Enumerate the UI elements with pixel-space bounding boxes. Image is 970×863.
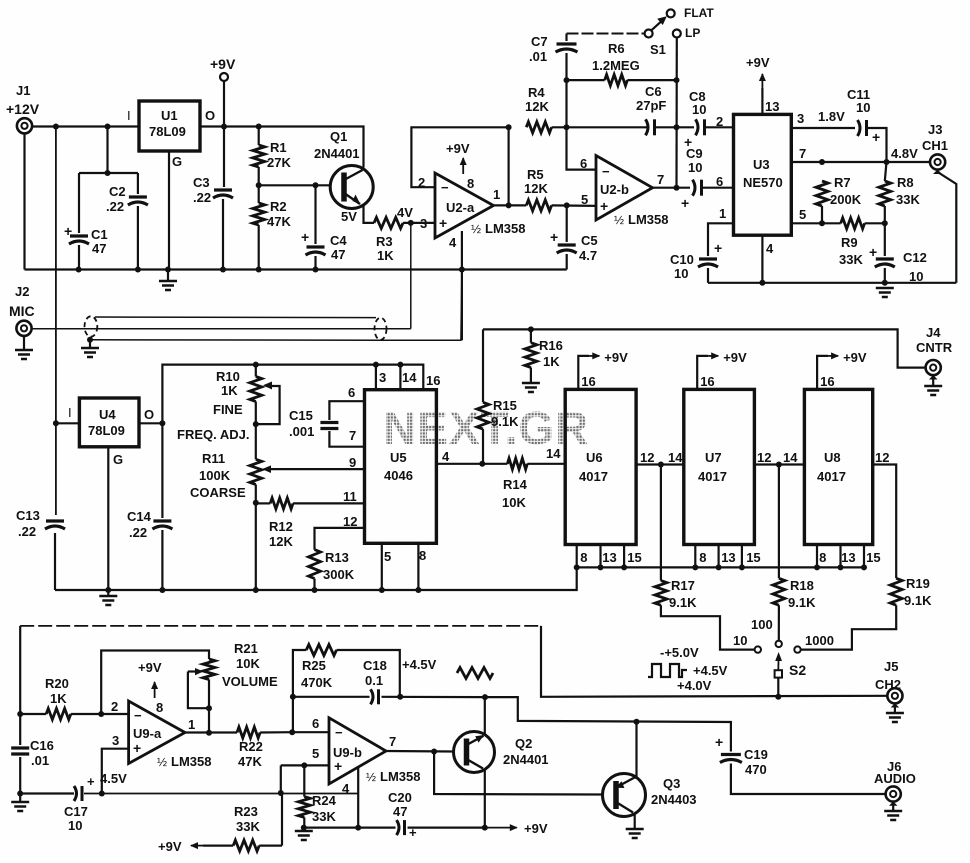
svg-text:½: ½	[366, 770, 376, 784]
svg-text:27K: 27K	[267, 155, 291, 170]
svg-text:R5: R5	[527, 167, 544, 182]
capacitor C4	[301, 185, 347, 269]
potentiometer R10 1K FINE	[213, 365, 280, 428]
svg-text:+: +	[872, 129, 880, 145]
svg-text:7: 7	[389, 734, 396, 749]
ic U6 4017	[565, 389, 636, 544]
svg-text:J4: J4	[926, 325, 941, 340]
svg-text:.22: .22	[18, 524, 36, 539]
svg-text:.01: .01	[31, 753, 49, 768]
svg-text:.22: .22	[106, 199, 124, 214]
capacitor C6 27pF	[636, 84, 694, 135]
svg-text:FREQ. ADJ.: FREQ. ADJ.	[177, 427, 249, 442]
wire U9-a output	[185, 731, 237, 733]
svg-text:C4: C4	[330, 233, 347, 248]
wire Q2 node step	[485, 697, 731, 751]
wire J6 sleeve	[889, 801, 898, 811]
wire U3 pin4	[761, 235, 763, 283]
wire +9V osc rail	[162, 362, 423, 424]
svg-text:R10: R10	[216, 369, 240, 384]
svg-text:.22: .22	[193, 190, 211, 205]
resistor R8 33K	[879, 162, 921, 223]
wire J4 sleeve	[929, 375, 938, 386]
capacitor C17 10	[64, 786, 88, 833]
wire U9-b pin5	[281, 762, 329, 768]
svg-text:10: 10	[856, 100, 870, 115]
svg-text:+: +	[409, 825, 417, 840]
svg-text:47: 47	[92, 241, 106, 256]
svg-text:U7: U7	[705, 450, 722, 465]
svg-text:4.7: 4.7	[579, 248, 597, 263]
svg-text:CNTR: CNTR	[916, 340, 953, 355]
svg-text:4: 4	[449, 235, 457, 250]
svg-text:U4: U4	[99, 407, 116, 422]
junction dots ground rail	[76, 267, 465, 273]
svg-text:+: +	[133, 740, 141, 756]
wire U9-b pin6 node	[290, 694, 329, 732]
svg-text:4.8V: 4.8V	[891, 146, 918, 161]
svg-text:1.8V: 1.8V	[818, 109, 845, 124]
jack J6 AUDIO	[874, 759, 916, 802]
svg-text:8: 8	[419, 548, 426, 563]
svg-text:R18: R18	[790, 578, 814, 593]
svg-text:+: +	[714, 240, 722, 256]
svg-text:10K: 10K	[236, 656, 260, 671]
svg-text:LM358: LM358	[171, 754, 211, 769]
svg-text:2N4401: 2N4401	[314, 146, 360, 161]
svg-text:J3: J3	[928, 122, 942, 137]
capacitor C16 .01	[11, 738, 54, 768]
svg-text:J2: J2	[15, 284, 29, 299]
svg-text:12: 12	[640, 450, 654, 465]
svg-text:O: O	[205, 108, 215, 123]
svg-text:6: 6	[716, 174, 723, 189]
resistor R25 470K	[293, 645, 400, 697]
label U6 pin12	[640, 450, 654, 465]
node watermark	[383, 402, 589, 454]
svg-text:R4: R4	[528, 85, 545, 100]
svg-text:½: ½	[471, 222, 481, 236]
node +9V arrow U2-a pin8	[446, 141, 470, 174]
svg-text:CH2: CH2	[875, 677, 901, 692]
ground below C16	[11, 794, 29, 812]
wire U1 output rail +9V	[200, 127, 364, 168]
capacitor C12 10	[869, 223, 927, 284]
node +9V terminal	[210, 56, 236, 127]
svg-text:5: 5	[799, 207, 806, 222]
svg-text:U9-a: U9-a	[133, 726, 162, 741]
capacitor C11 10	[847, 87, 887, 162]
svg-text:R19: R19	[906, 576, 930, 591]
svg-text:R24: R24	[312, 793, 337, 808]
svg-text:+9V: +9V	[604, 350, 628, 365]
svg-text:+9V: +9V	[843, 350, 867, 365]
svg-text:.01: .01	[529, 49, 547, 64]
wire U2-a pin4	[461, 231, 463, 340]
svg-text:C9: C9	[686, 146, 703, 161]
ground below U4	[99, 596, 117, 605]
svg-text:+: +	[439, 215, 447, 231]
svg-text:47K: 47K	[267, 214, 291, 229]
svg-text:C19: C19	[744, 747, 768, 762]
svg-text:4017: 4017	[698, 469, 727, 484]
label U6 pin14	[546, 446, 561, 461]
svg-text:8: 8	[156, 700, 163, 715]
svg-text:−: −	[441, 180, 449, 195]
svg-text:J5: J5	[884, 659, 898, 674]
svg-text:U5: U5	[390, 450, 407, 465]
svg-text:R2: R2	[270, 199, 287, 214]
svg-text:+: +	[681, 195, 689, 211]
capacitor C7 .01	[529, 34, 578, 128]
svg-text:R12: R12	[269, 519, 293, 534]
wire mid ground rail	[55, 567, 577, 593]
capacitor C18 0.1	[293, 658, 485, 704]
svg-text:200K: 200K	[830, 192, 862, 207]
svg-text:½: ½	[614, 213, 624, 227]
label FREQ ADJ	[177, 427, 249, 442]
svg-text:U1: U1	[161, 108, 178, 123]
wire Q3 collector ground	[626, 814, 644, 838]
resistor R4 12K	[525, 85, 552, 133]
ic U5 4046	[365, 390, 437, 544]
svg-text:R15: R15	[493, 398, 517, 413]
ground below J5	[886, 713, 904, 722]
svg-text:+4.5V: +4.5V	[693, 663, 728, 678]
wire U5 pin4 out	[436, 461, 507, 467]
wire J1 to U1	[32, 125, 139, 127]
svg-text:R22: R22	[239, 739, 263, 754]
wire U2-b pin6	[567, 127, 597, 169]
svg-text:14: 14	[668, 450, 683, 465]
svg-text:U2-a: U2-a	[446, 200, 475, 215]
svg-text:3: 3	[420, 216, 427, 231]
ground below J6	[884, 811, 902, 820]
svg-text:+: +	[869, 244, 877, 260]
svg-text:S2: S2	[789, 662, 806, 678]
svg-text:33K: 33K	[312, 809, 336, 824]
svg-text:16: 16	[426, 373, 440, 388]
svg-text:7: 7	[349, 428, 356, 443]
svg-text:15: 15	[866, 550, 880, 565]
ground below C12	[876, 288, 894, 297]
svg-text:78L09: 78L09	[88, 423, 125, 438]
svg-text:12K: 12K	[525, 99, 549, 114]
wire J2 sleeve	[23, 336, 25, 350]
wire R3 to U2-a pin3	[397, 205, 435, 226]
svg-text:13: 13	[765, 99, 779, 114]
wire U9-b pin4	[355, 767, 361, 831]
svg-text:FINE: FINE	[213, 402, 243, 417]
svg-text:8: 8	[580, 550, 587, 565]
wire S1 LP drop	[674, 38, 680, 191]
resistor R14 10K	[502, 458, 565, 510]
svg-text:C12: C12	[903, 250, 927, 265]
resistor R23 33K	[158, 804, 282, 854]
svg-text:13: 13	[841, 550, 855, 565]
wire mic signal	[32, 328, 411, 330]
capacitor C8 10	[684, 89, 734, 150]
svg-text:U3: U3	[753, 157, 770, 172]
wire U3 pin3 to C11	[791, 109, 855, 128]
svg-text:4017: 4017	[579, 469, 608, 484]
svg-text:+9V: +9V	[210, 56, 236, 72]
svg-text:9.1K: 9.1K	[669, 595, 697, 610]
svg-text:−: −	[335, 725, 343, 740]
svg-text:-+5.0V: -+5.0V	[660, 645, 699, 660]
svg-text:CH1: CH1	[922, 138, 948, 153]
svg-text:78L09: 78L09	[149, 124, 186, 139]
label U8 bottom pins	[819, 550, 880, 565]
op-amp U9-b	[329, 718, 420, 784]
potentiometer R11 100K COARSE	[190, 424, 365, 590]
svg-text:1: 1	[493, 187, 500, 202]
svg-text:9.1K: 9.1K	[491, 414, 519, 429]
svg-text:4.5V: 4.5V	[100, 771, 127, 786]
svg-text:9.1K: 9.1K	[904, 593, 932, 608]
wire pin5 node to rail	[278, 765, 284, 796]
label U3 pin numbers	[716, 99, 806, 256]
transistor Q1 2N4401	[314, 129, 373, 209]
svg-text:C5: C5	[581, 233, 598, 248]
svg-text:R11: R11	[202, 451, 225, 466]
svg-text:R1: R1	[270, 140, 287, 155]
transistor Q2 2N4401	[454, 732, 549, 773]
svg-text:C14: C14	[127, 509, 152, 524]
wire U2-b output	[653, 187, 691, 189]
svg-text:C1: C1	[91, 227, 108, 242]
wire C16 left drop	[17, 626, 23, 797]
wire mic shield bottom	[90, 270, 462, 341]
wire J5 sleeve	[891, 703, 900, 713]
svg-text:.22: .22	[129, 525, 147, 540]
regulator U1 78L09	[127, 101, 215, 169]
label U7 pin12	[757, 450, 771, 465]
wire shield ground stub	[89, 340, 91, 348]
label U8 pin14	[783, 450, 798, 465]
svg-text:11: 11	[343, 489, 357, 504]
svg-text:−: −	[134, 708, 142, 723]
svg-text:R9: R9	[841, 235, 858, 250]
wire ground rail top section	[25, 268, 567, 270]
wire C1 C2 branch	[79, 127, 138, 270]
resistor R9 33K	[839, 218, 885, 267]
resistor floating artifact	[457, 668, 493, 679]
wire U4 input	[56, 422, 80, 424]
svg-text:G: G	[172, 154, 182, 169]
svg-text:C16: C16	[30, 738, 54, 753]
resistor R12 12K	[256, 498, 365, 549]
svg-text:10: 10	[688, 160, 702, 175]
resistor R5 12K	[524, 167, 552, 211]
capacitor C15 .001	[289, 401, 365, 447]
wire R23 riser	[281, 793, 283, 846]
svg-text:10: 10	[733, 633, 747, 648]
svg-text:5: 5	[312, 746, 319, 761]
svg-text:1K: 1K	[221, 383, 238, 398]
svg-text:C18: C18	[363, 658, 387, 673]
svg-text:33K: 33K	[236, 819, 260, 834]
ground below J4	[924, 386, 942, 395]
svg-text:16: 16	[820, 374, 834, 389]
svg-text:9.1K: 9.1K	[788, 595, 816, 610]
svg-text:R21: R21	[234, 641, 258, 656]
svg-text:.001: .001	[289, 424, 314, 439]
svg-text:100K: 100K	[199, 468, 231, 483]
resistor R18 9.1K	[773, 465, 816, 641]
svg-text:14: 14	[546, 446, 561, 461]
resistor R19 9.1K	[801, 576, 932, 650]
wire U2-a output	[494, 204, 527, 206]
svg-text:+4.0V: +4.0V	[677, 678, 712, 693]
capacitor C2	[106, 184, 148, 214]
svg-text:+12V: +12V	[6, 101, 40, 117]
wire counter pin stubs	[574, 545, 867, 571]
svg-text:470: 470	[745, 762, 767, 777]
wire R5 to U2-b pin5	[552, 202, 596, 208]
svg-text:+9V: +9V	[158, 839, 182, 854]
svg-text:7: 7	[799, 146, 806, 161]
svg-text:16: 16	[700, 374, 714, 389]
svg-text:300K: 300K	[323, 567, 355, 582]
wire U9-b out drop to Q3 base	[434, 752, 602, 795]
svg-text:J1: J1	[16, 83, 30, 98]
wire U5 pin8 stub	[417, 543, 419, 590]
node +9V arrow U9-a	[138, 660, 162, 698]
ground below U1	[159, 281, 177, 290]
wire Q2 emitter up	[484, 697, 486, 734]
svg-text:C15: C15	[289, 408, 313, 423]
svg-text:U9-b: U9-b	[333, 745, 362, 760]
wire U4 output	[139, 420, 165, 426]
wire R4 right	[552, 124, 645, 130]
wire U3 pin1 to C10	[708, 223, 734, 256]
svg-text:12K: 12K	[269, 534, 293, 549]
wire U2-a pin2 feedback	[411, 124, 511, 208]
svg-text:33K: 33K	[896, 192, 920, 207]
resistor R17 9.1K	[655, 465, 755, 650]
svg-text:LM358: LM358	[485, 221, 525, 236]
resistor R7 200K	[816, 175, 862, 223]
label U2-b pins	[580, 156, 664, 207]
label +4.5V near C18	[402, 657, 437, 672]
svg-text:VOLUME: VOLUME	[222, 674, 278, 689]
wire mic drop	[410, 223, 412, 329]
wire mic shield top	[95, 316, 376, 319]
svg-text:LM358: LM358	[628, 212, 668, 227]
jack J3 CH1	[922, 122, 948, 170]
svg-text:U2-b: U2-b	[600, 182, 629, 197]
svg-text:47: 47	[393, 804, 407, 819]
svg-text:+9V: +9V	[746, 55, 770, 70]
svg-text:Q1: Q1	[330, 129, 347, 144]
wire +12V left drop	[53, 127, 59, 591]
svg-text:2: 2	[111, 699, 118, 714]
svg-text:LM358: LM358	[380, 769, 420, 784]
svg-text:C2: C2	[109, 184, 126, 199]
svg-text:470K: 470K	[301, 675, 333, 690]
svg-text:3: 3	[797, 111, 804, 126]
wire U3 pin5	[791, 220, 888, 226]
svg-text:4: 4	[766, 241, 774, 256]
label U7 pin14	[668, 450, 683, 465]
resistor R15 9.1K	[477, 329, 519, 463]
wire C14 branch	[161, 423, 163, 590]
svg-text:3: 3	[112, 733, 119, 748]
svg-text:4: 4	[442, 449, 450, 464]
svg-text:+9V: +9V	[524, 821, 548, 836]
capacitor C5 4.7	[550, 205, 598, 269]
node shield oval left	[85, 316, 98, 343]
resistor R3 1K	[374, 217, 403, 263]
junction dots top rail	[53, 124, 262, 130]
wire U7 pin16 +9V	[697, 350, 747, 389]
wire U3 ground rail	[708, 280, 956, 286]
svg-text:14: 14	[402, 370, 417, 385]
svg-text:Q2: Q2	[515, 736, 532, 751]
svg-text:4046: 4046	[384, 468, 413, 483]
svg-text:1: 1	[188, 717, 195, 732]
resistor R2 47K	[253, 185, 292, 269]
ground below R16	[522, 383, 540, 392]
ground below R24	[295, 828, 313, 840]
svg-text:C20: C20	[388, 790, 412, 805]
wire C20 line	[301, 825, 485, 831]
svg-text:+9V: +9V	[723, 350, 747, 365]
switch S1	[645, 6, 715, 57]
resistor R24 33K	[298, 765, 336, 827]
svg-text:13: 13	[602, 550, 616, 565]
svg-text:6: 6	[348, 385, 355, 400]
resistor R22 47K	[237, 727, 295, 769]
capacitor C20 47	[388, 790, 417, 840]
wire Q1 base	[256, 182, 331, 188]
svg-text:MIC: MIC	[9, 303, 35, 319]
resistor R1 27K	[253, 127, 292, 186]
svg-text:1000: 1000	[805, 633, 834, 648]
svg-text:R16: R16	[539, 338, 563, 353]
wire U5 pin12 to R13	[315, 528, 365, 550]
svg-text:R14: R14	[503, 477, 528, 492]
transistor Q3 2N4403	[603, 774, 697, 817]
wire U8 out	[873, 465, 897, 579]
svg-text:5: 5	[384, 549, 391, 564]
wire U5 pin14 stub	[399, 365, 401, 390]
svg-text:NE570: NE570	[743, 175, 783, 190]
svg-text:FLAT: FLAT	[684, 6, 714, 20]
svg-text:8: 8	[819, 550, 826, 565]
wire U3 pin7 4.8V	[791, 146, 930, 165]
capacitor C9 10	[681, 146, 734, 211]
svg-text:5: 5	[581, 192, 588, 207]
svg-text:4017: 4017	[817, 469, 846, 484]
wire J3 sleeve	[933, 170, 956, 283]
node shield oval right	[375, 318, 387, 340]
svg-text:+4.5V: +4.5V	[402, 657, 437, 672]
wire J1 sleeve down	[23, 133, 25, 269]
svg-text:R8: R8	[897, 175, 914, 190]
svg-text:R23: R23	[234, 804, 258, 819]
op-amp U9-a	[129, 701, 212, 769]
svg-text:R7: R7	[834, 175, 851, 190]
svg-text:AUDIO: AUDIO	[874, 771, 916, 786]
wire U6 out to U7	[636, 462, 684, 468]
svg-text:1K: 1K	[543, 354, 560, 369]
label S2 contacts	[733, 617, 834, 648]
svg-text:R20: R20	[45, 676, 69, 691]
svg-text:8: 8	[467, 176, 474, 191]
wire Q1 emitter to R3	[341, 206, 374, 224]
